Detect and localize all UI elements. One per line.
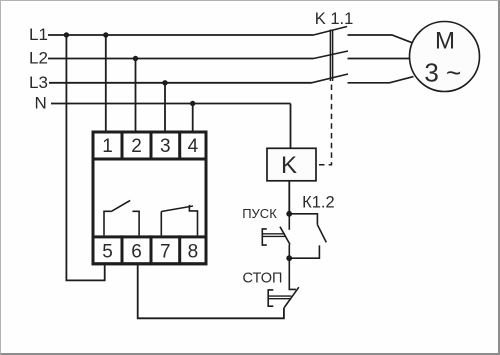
wire L3 to terminal 3 (164, 83, 166, 131)
terminal separator 5|6 (121, 235, 124, 265)
junction dot L1-terminal1 (103, 32, 108, 37)
bus wire N (51, 103, 291, 105)
svg-text:3 ~: 3 ~ (424, 57, 461, 87)
junction dot L3-terminal3 (162, 80, 167, 85)
svg-text:5: 5 (102, 242, 113, 263)
relay contact 7-8 blade (161, 206, 193, 212)
pushbutton PUSK cap (262, 229, 267, 245)
svg-text:К1.2: К1.2 (302, 194, 335, 212)
pushbutton PUSK blade (280, 227, 290, 245)
relay contact 7-8 left post (160, 212, 162, 236)
terminal separator 7|8 (178, 235, 181, 265)
svg-text:L2: L2 (29, 49, 48, 68)
bus wire L3 (49, 82, 312, 84)
junction dot N-terminal4 (190, 101, 195, 106)
wire L1 to terminal 5 (left drop) (66, 35, 104, 280)
terminal separator 6|7 (150, 235, 153, 265)
motor M 3~ circle (410, 22, 480, 92)
relay terminal block outline (93, 132, 206, 264)
bus wire L1 (48, 34, 314, 36)
svg-text:1: 1 (102, 136, 113, 157)
pushbutton STOP cap (268, 290, 273, 306)
contactor K1.1 blade phase L2 (314, 51, 349, 59)
svg-text:K: K (281, 152, 297, 179)
node B junction dot (286, 255, 292, 261)
wire L2 to terminal 2 (135, 59, 137, 131)
junction dot L2-terminal2 (133, 56, 138, 61)
junction dot L1-left (64, 32, 69, 37)
svg-text:4: 4 (188, 136, 199, 157)
mechanical link dashed K1.1 to coil K (316, 85, 332, 165)
relay contact 5-6 blade (112, 200, 131, 211)
terminal separator 1|2 (121, 131, 124, 161)
pushbutton PUSK rod (262, 234, 285, 237)
relay contact 5-6 right post (132, 211, 139, 235)
wire N to terminal 4 (192, 104, 194, 131)
svg-text:2: 2 (131, 136, 142, 157)
svg-text:3: 3 (160, 136, 171, 157)
pushbutton PUSK bottom wire (288, 245, 290, 259)
contact K1.2 top wire (289, 214, 317, 225)
pushbutton PUSK top wire (288, 214, 290, 230)
terminal separator 2|3 (150, 131, 153, 161)
pushbutton STOP rod (268, 296, 291, 299)
svg-text:ПУСК: ПУСК (242, 206, 277, 221)
svg-text:СТОП: СТОП (243, 271, 283, 287)
wire K1.1 to motor phase 2 (348, 58, 410, 60)
contactor K1.1 linkage bar (330, 30, 332, 82)
svg-text:K 1.1: K 1.1 (315, 10, 354, 28)
wire L1 to terminal 1 (105, 35, 107, 131)
contactor K1.1 blade phase L1 (314, 27, 348, 36)
coil K box (267, 148, 316, 181)
wire coil K to node A (288, 181, 290, 214)
svg-text:L1: L1 (29, 25, 48, 44)
bus wire L2 (48, 58, 314, 60)
relay contact 7-8 right post (189, 205, 197, 236)
wire N to coil K (290, 104, 292, 149)
svg-text:L3: L3 (29, 73, 48, 92)
wire terminal 6 to STOP button bottom (138, 265, 284, 318)
wire K1.1 to motor phase 3 (348, 77, 414, 83)
contactor K1.1 blade phase L3 (312, 74, 349, 83)
terminal row top outline (93, 132, 206, 159)
node A junction dot (286, 211, 292, 217)
contact K1.2 blade (317, 225, 326, 243)
contact K1.2 bottom wire (289, 245, 319, 258)
svg-text:6: 6 (131, 242, 142, 263)
svg-text:7: 7 (160, 242, 171, 263)
terminal separator 3|4 (178, 131, 181, 161)
terminal row bottom outline (93, 237, 206, 264)
pushbutton STOP top wire (289, 258, 296, 289)
svg-text:M: M (435, 28, 455, 55)
pushbutton STOP blade (284, 287, 299, 308)
wire K1.1 to motor phase 1 (348, 35, 413, 43)
svg-text:N: N (35, 94, 47, 113)
svg-text:8: 8 (188, 242, 199, 263)
relay contact 5-6 left post (104, 211, 112, 235)
